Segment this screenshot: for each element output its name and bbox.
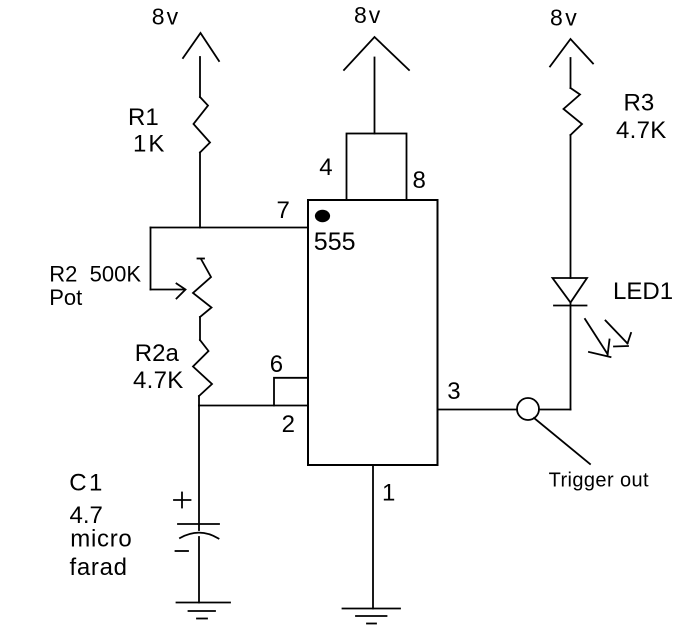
wire (374, 58, 376, 134)
wire (570, 58, 572, 88)
wire (150, 228, 152, 290)
LED1 diode (553, 278, 588, 306)
ground middle (343, 609, 401, 624)
svg-text:R3: R3 (624, 90, 655, 117)
svg-text:8v: 8v (550, 5, 579, 31)
wiper arrowhead (177, 284, 186, 299)
power 8v right (550, 39, 593, 67)
svg-text:6: 6 (270, 351, 283, 378)
svg-text:8v: 8v (354, 2, 382, 28)
svg-text:R2a: R2a (135, 340, 180, 367)
wire (372, 465, 374, 609)
LED1 light arrows (585, 319, 631, 357)
svg-text:4.7K: 4.7K (133, 367, 184, 394)
svg-text:LED1: LED1 (613, 278, 673, 305)
svg-text:R2 500K: R2 500K (49, 261, 141, 286)
wire wiper (151, 289, 185, 291)
resistor R1 (194, 97, 211, 153)
wire (198, 537, 200, 603)
svg-text:8: 8 (413, 167, 426, 194)
wire (199, 317, 201, 340)
wire (199, 57, 201, 97)
potentiometer R2 (193, 259, 212, 318)
wire pin3 (438, 409, 518, 411)
power 8v middle (344, 37, 409, 70)
wire pin6 step (274, 378, 308, 406)
svg-text:R1: R1 (128, 104, 159, 131)
resistor R3 (564, 88, 583, 135)
svg-text:7: 7 (277, 197, 290, 224)
svg-text:farad: farad (70, 554, 128, 581)
svg-text:1K: 1K (133, 130, 166, 157)
trigger pointer line (534, 418, 590, 464)
svg-text:Trigger out: Trigger out (549, 469, 649, 491)
svg-text:3: 3 (447, 378, 460, 405)
svg-text:1: 1 (382, 480, 395, 507)
wire (570, 135, 572, 278)
resistor R2a (193, 340, 212, 396)
op-amp U1 555 body (308, 200, 438, 465)
wire pin7 (151, 227, 309, 229)
svg-text:micro: micro (70, 525, 132, 552)
power 8v left (183, 33, 219, 61)
svg-text:Pot: Pot (49, 285, 82, 310)
svg-text:555: 555 (314, 228, 356, 256)
pin1 dot (315, 210, 330, 222)
wire (570, 303, 572, 410)
svg-text:4.7K: 4.7K (616, 117, 667, 144)
node Trigger out (517, 398, 539, 420)
pins 4-8 box (347, 134, 407, 201)
wire (539, 409, 571, 411)
capacitor C1 (174, 493, 219, 552)
svg-text:C1: C1 (69, 469, 105, 496)
svg-text:2: 2 (282, 411, 295, 438)
wire (198, 406, 200, 531)
wire (199, 153, 201, 228)
wire (198, 396, 200, 406)
svg-text:4: 4 (319, 154, 332, 181)
svg-text:8v: 8v (152, 4, 180, 30)
ground left (177, 603, 231, 619)
wire pin2 (199, 405, 308, 407)
